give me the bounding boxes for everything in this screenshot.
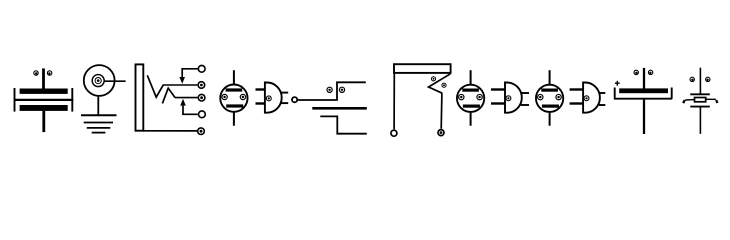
- wire spring to terminal 3: [175, 97, 198, 99]
- tube V3: [536, 70, 563, 126]
- tube V1: [220, 70, 247, 126]
- terminal 2: [198, 82, 205, 89]
- wire left leg: [393, 73, 395, 129]
- capacitor C3 trimmer: [683, 68, 717, 134]
- capacitor C2 positive plate: [619, 88, 668, 93]
- wire right leg: [440, 93, 443, 129]
- wire spring to terminal 2: [163, 84, 197, 86]
- jack tip spring contact: [147, 75, 163, 97]
- wire from bubble: [298, 99, 338, 101]
- gate U2: [491, 83, 529, 113]
- terminal L: [391, 130, 397, 136]
- wire lower step: [320, 116, 367, 133]
- terminal R: [438, 130, 444, 136]
- wire C2 bottom lead: [643, 100, 645, 134]
- wire terminal 4 hook with up arrow: [180, 99, 198, 115]
- gate U1: [256, 83, 289, 113]
- terminal 1: [198, 65, 205, 72]
- jack J2 body: [136, 64, 144, 130]
- bubble node: [292, 97, 297, 102]
- node dot B: [339, 87, 344, 92]
- ground: [81, 115, 117, 132]
- plus polarity mark: [615, 81, 620, 86]
- relay K1 armature bar: [394, 64, 451, 73]
- node dot C: [431, 77, 435, 81]
- capacitor C2 negative plate: [614, 88, 672, 99]
- wire jack sleeve to terminal 5: [143, 130, 197, 132]
- terminal 4: [199, 111, 206, 118]
- contact notch: [429, 74, 451, 93]
- capacitor C1 feedthrough: [14, 68, 73, 132]
- wire bus line: [312, 107, 367, 110]
- coax connector J1: [84, 65, 126, 115]
- gate U3: [570, 83, 606, 113]
- jack break spring contact: [162, 88, 175, 103]
- node dot D: [442, 83, 446, 87]
- node dot A: [327, 87, 332, 92]
- terminal 5: [198, 128, 205, 135]
- terminal 3: [198, 94, 205, 101]
- wire terminal 1 hook with down arrow: [179, 69, 197, 84]
- tube V2: [457, 70, 484, 126]
- capacitor C2 electrolytic: [634, 68, 653, 89]
- wire riser and top lead: [337, 82, 366, 100]
